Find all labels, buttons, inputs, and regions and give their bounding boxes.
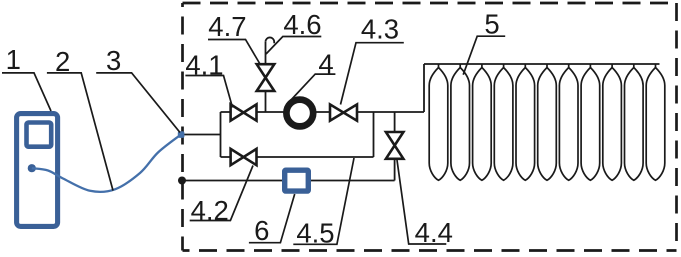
svg-text:6: 6 (254, 215, 269, 246)
svg-text:4.2: 4.2 (191, 195, 229, 226)
svg-text:4: 4 (318, 49, 333, 80)
svg-text:4.5: 4.5 (296, 217, 334, 248)
svg-text:4.7: 4.7 (208, 11, 246, 42)
svg-text:2: 2 (55, 46, 70, 77)
svg-text:4.3: 4.3 (361, 14, 399, 45)
svg-text:1: 1 (6, 44, 21, 75)
svg-text:3: 3 (106, 45, 121, 76)
svg-text:5: 5 (484, 9, 499, 40)
svg-text:4.6: 4.6 (283, 9, 321, 40)
svg-text:4.1: 4.1 (185, 49, 223, 80)
svg-text:4.4: 4.4 (415, 217, 453, 248)
